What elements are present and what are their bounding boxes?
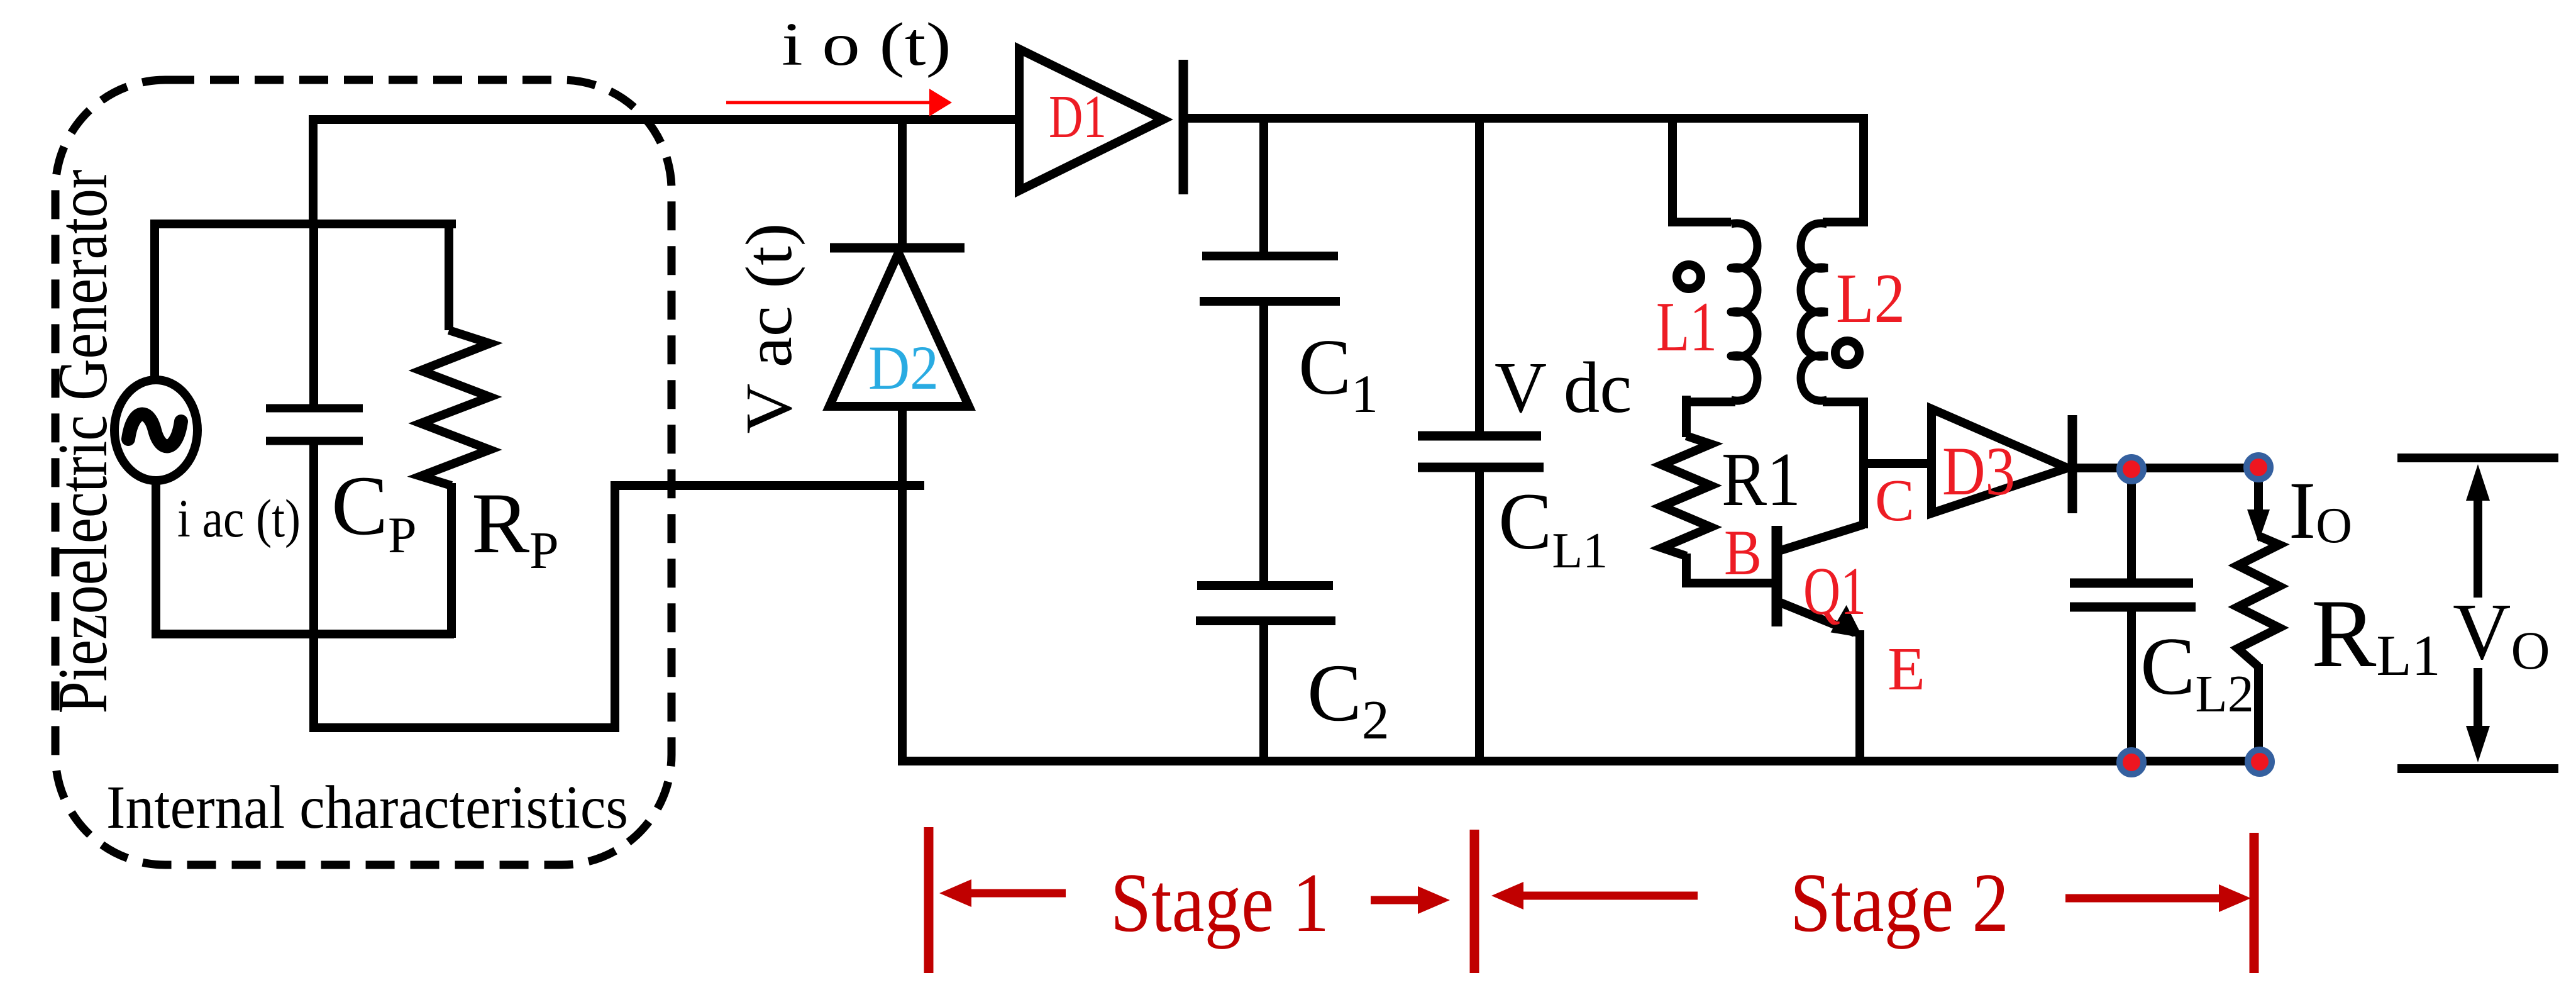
AC source i ac (t) (114, 380, 197, 481)
svg-text:Piezoelectric Generator: Piezoelectric Generator (44, 170, 122, 714)
capacitor C1 (1200, 118, 1340, 586)
svg-text:L1: L1 (1656, 288, 1717, 366)
capacitor CL2 (2070, 468, 2196, 761)
resistor R1 (1662, 396, 1777, 587)
label CL2 (2140, 621, 2254, 723)
diode D1 (1019, 49, 1183, 194)
wire generator left vertical (150, 220, 159, 382)
stage divider bar 1 (924, 827, 934, 973)
label CP (331, 459, 417, 564)
wire bottom rail (898, 757, 2264, 765)
resistor RL1 with IO arrow (2238, 468, 2279, 761)
label L1 (1656, 288, 1717, 366)
label C1 (1298, 324, 1378, 424)
label R1 (1722, 437, 1801, 522)
svg-text:Stage 1: Stage 1 (1110, 856, 1329, 949)
label E emitter (1888, 635, 1925, 703)
svg-text:D3: D3 (1942, 433, 2015, 509)
VO arrow upper (2466, 464, 2490, 598)
svg-text:V ac (t): V ac (t) (732, 223, 805, 434)
label Stage 1 (1110, 856, 1329, 949)
wire generator bottom (152, 630, 454, 638)
label i o (t) (782, 11, 951, 79)
wire generator lower return (309, 723, 619, 732)
label D2 (868, 333, 939, 403)
dashed box Internal characteristics (55, 80, 672, 865)
svg-text:i o (t): i o (t) (782, 11, 951, 79)
wire return riser (611, 486, 619, 732)
label D3 (1942, 433, 2015, 509)
label D1 (1049, 83, 1107, 151)
label V dc (1495, 348, 1632, 428)
capacitor CL1 (1418, 118, 1544, 761)
label Piezoelectric Generator (44, 170, 122, 714)
diode D3 (1932, 409, 2072, 513)
svg-text:Q1: Q1 (1803, 554, 1866, 629)
inductor L1 (1668, 118, 1757, 402)
label RL1 (2311, 579, 2441, 687)
node dot output bottom left (2120, 750, 2143, 774)
svg-text:i ac (t): i ac (t) (177, 488, 301, 548)
node dot output bottom right (2248, 750, 2272, 774)
wire collector to D3 (1864, 459, 1935, 468)
label C2 (1307, 648, 1390, 751)
resistor RP (421, 220, 490, 638)
VO top rail (2397, 454, 2558, 462)
wire return to D2 anode (611, 481, 923, 490)
arrow io(t) red (726, 89, 952, 116)
svg-text:D1: D1 (1049, 83, 1107, 151)
stage2 right arrow (2065, 884, 2251, 912)
svg-text:L2: L2 (1836, 260, 1905, 338)
capacitor CP (266, 224, 363, 732)
label CL1 (1498, 477, 1608, 579)
label Q1 (1803, 554, 1866, 629)
diode D2 (829, 248, 969, 406)
stage divider bar 2 (1470, 830, 1479, 973)
stage1 right arrow (1371, 886, 1450, 914)
wire D3 to output node (2072, 464, 2264, 472)
svg-text:C: C (1875, 468, 1915, 533)
label C collector (1875, 468, 1915, 533)
label B (1724, 517, 1762, 589)
svg-text:Internal characteristics: Internal characteristics (106, 774, 628, 842)
label VO (2453, 587, 2550, 681)
node dot output top left (2120, 457, 2143, 481)
inductor L2 (1801, 118, 1868, 528)
svg-text:B: B (1724, 517, 1762, 589)
junction tick D2 return (902, 481, 924, 490)
svg-text:R1: R1 (1722, 437, 1801, 522)
polarity dot L2 (1835, 341, 1859, 365)
wire AC source bottom (152, 479, 160, 638)
polarity dot L1 (1677, 265, 1701, 289)
wire D2 cathode stem (898, 120, 907, 251)
wire top rail right (1185, 114, 1868, 123)
capacitor C2 (1196, 586, 1335, 761)
wire D2 anode stem (898, 406, 907, 765)
svg-text:V dc: V dc (1495, 348, 1632, 428)
VO arrow lower (2466, 668, 2490, 762)
label RP (472, 475, 559, 580)
node dot output top right (2247, 455, 2270, 479)
label i ac (t) (177, 488, 301, 548)
stage divider bar 3 (2250, 833, 2259, 973)
wire top rail left (309, 115, 1022, 124)
label Internal characteristics (106, 774, 628, 842)
label L2 (1836, 260, 1905, 338)
VO bottom rail (2397, 764, 2558, 773)
svg-text:D2: D2 (868, 333, 939, 403)
wire top stub from generator (309, 120, 318, 224)
stage2 left arrow (1491, 882, 1698, 910)
stage1 left arrow (939, 879, 1066, 907)
label V ac (t) (732, 223, 805, 434)
wire generator inner top (150, 220, 456, 228)
svg-text:E: E (1888, 635, 1925, 703)
label Stage 2 (1790, 856, 2009, 949)
label IO (2289, 465, 2352, 556)
transistor Q1 (1777, 525, 1864, 765)
svg-text:Stage 2: Stage 2 (1790, 856, 2009, 949)
